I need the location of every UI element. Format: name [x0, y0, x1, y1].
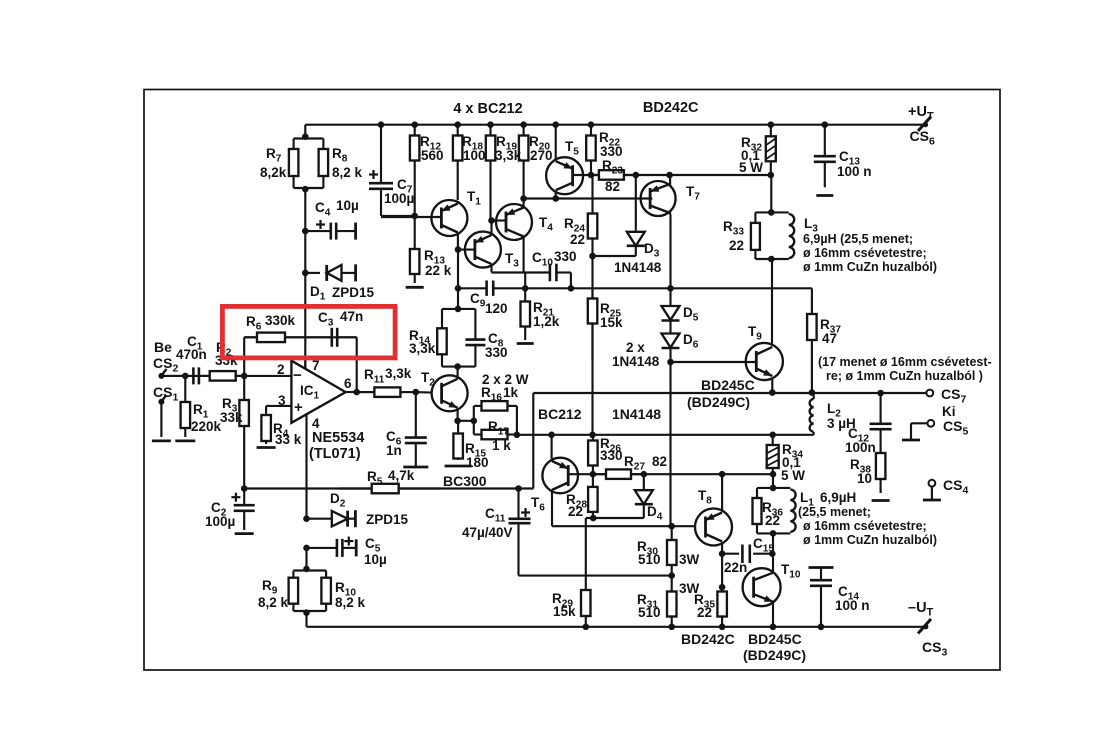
ground bar CS1: [152, 439, 171, 442]
resistor R32: [770, 125, 772, 137]
wire VAS line y288 with corner to R37: [458, 287, 487, 289]
node R7R8 top: [302, 133, 309, 140]
capacitor C7: [380, 125, 382, 184]
svg-text:(BD249C): (BD249C): [687, 394, 750, 410]
wire D1 to opamp pin7: [304, 273, 306, 368]
node T7 emitter y175: [666, 172, 673, 179]
inductor L1: [757, 487, 790, 489]
node T6 collector on rail: [548, 432, 555, 439]
svg-text:22: 22: [765, 513, 780, 528]
node R27 right / D4 top: [641, 471, 648, 478]
svg-text:ø 1mm CuZn huzalból): ø 1mm CuZn huzalból): [803, 260, 937, 274]
node R37 bottom / L2 top: [809, 389, 816, 396]
svg-text:+: +: [294, 399, 303, 416]
node C13 rail: [822, 121, 829, 128]
svg-text:(25,5 menet;: (25,5 menet;: [798, 505, 871, 519]
svg-text:330: 330: [600, 144, 623, 159]
svg-text:330: 330: [600, 448, 623, 463]
resistor R37: [811, 305, 813, 314]
svg-text:4: 4: [312, 416, 320, 431]
node C14 bottom: [818, 624, 825, 631]
capacitor C10: [549, 264, 552, 282]
wire R7R8 parallel block: [294, 137, 324, 139]
svg-text:15k: 15k: [600, 315, 623, 330]
svg-text:5 W: 5 W: [781, 468, 805, 483]
node T3 emitter / T4 base: [488, 217, 495, 224]
svg-text:1N4148: 1N4148: [614, 260, 662, 275]
wire R16/R17 right join: [516, 406, 518, 435]
wire C10 row y272: [492, 271, 550, 273]
svg-text:ZPD15: ZPD15: [366, 512, 409, 527]
transistor T5: [546, 157, 583, 194]
node R34 top on rail: [769, 432, 776, 439]
transistor T3: [465, 232, 501, 268]
svg-text:3: 3: [278, 393, 286, 408]
wire output rail (post-L2) to CS7: [533, 392, 926, 394]
svg-text:100µ: 100µ: [384, 191, 414, 206]
node T7 collector / D5 top on VAS: [667, 285, 674, 292]
termination C6: [403, 466, 428, 469]
resistor R3: [243, 376, 245, 400]
svg-text:560: 560: [421, 148, 444, 163]
svg-text:6,9µH (25,5 menet;: 6,9µH (25,5 menet;: [803, 232, 913, 246]
node R14C8 bottom / T2 collector: [454, 363, 461, 370]
resistor R29: [585, 580, 587, 590]
wire T2 emitter row: [457, 411, 459, 421]
node C10 right on VAS: [568, 285, 575, 292]
svg-text:22n: 22n: [724, 560, 747, 575]
node T5 base / R22: [588, 172, 595, 179]
svg-text:Be: Be: [154, 339, 172, 355]
svg-text:2: 2: [277, 362, 285, 377]
ground bar R4: [257, 446, 276, 449]
wire T1 collector to T3 base: [458, 249, 474, 251]
node R18 top: [454, 121, 461, 128]
svg-text:10: 10: [857, 471, 872, 486]
resistor R14: [441, 309, 443, 328]
resistor R26: [592, 435, 594, 441]
svg-text:3,3k: 3,3k: [385, 366, 412, 381]
svg-text:2 x: 2 x: [626, 340, 645, 355]
svg-text:BD245C: BD245C: [748, 631, 802, 647]
wire R11 to T2 base: [416, 391, 432, 394]
resistor R4: [265, 406, 267, 415]
svg-text:BD242C: BD242C: [681, 631, 735, 647]
terminal CS1: [158, 399, 164, 405]
ground bar R13: [406, 286, 424, 289]
capacitor C13: [824, 125, 826, 157]
svg-text:100: 100: [463, 148, 486, 163]
svg-text:6: 6: [344, 376, 352, 391]
resistor R21: [524, 288, 526, 301]
wire T8em to T10 base: [721, 554, 723, 588]
node R30/R31/C11: [668, 572, 675, 579]
diode D1 ZPD15: [305, 272, 320, 274]
svg-text:1k: 1k: [503, 385, 519, 400]
svg-text:BD242C: BD242C: [643, 100, 699, 116]
wire R9R10 parallel block: [293, 569, 326, 571]
svg-text:4,7k: 4,7k: [388, 468, 415, 483]
node C11 top: [515, 485, 522, 492]
svg-text:ø 16mm csévetestre;: ø 16mm csévetestre;: [803, 246, 927, 260]
svg-text:82: 82: [605, 179, 620, 194]
wire T9 base line: [671, 361, 757, 363]
resistor R11: [357, 391, 375, 393]
node opamp output: [353, 389, 360, 396]
node R12 top: [411, 121, 418, 128]
svg-text:NE5534: NE5534: [312, 430, 364, 446]
resistor R20: [523, 125, 525, 136]
node R29 bottom: [583, 624, 590, 631]
wire pin7 inside triangle: [304, 361, 306, 369]
svg-text:470n: 470n: [176, 347, 207, 362]
capacitor C14: [809, 566, 834, 569]
resistor R7: [293, 139, 295, 150]
resistor R1: [184, 376, 186, 402]
svg-text:33 k: 33 k: [275, 432, 302, 447]
svg-text:220k: 220k: [191, 419, 222, 434]
transistor T2 BC300: [432, 375, 468, 411]
wire R24 bottom to D3 bottom: [593, 255, 636, 257]
termination R38: [872, 499, 890, 502]
svg-text:100 n: 100 n: [835, 598, 870, 613]
svg-text:5 W: 5 W: [739, 160, 763, 175]
resistor R34: [772, 435, 774, 445]
svg-text:330: 330: [485, 345, 508, 360]
svg-text:100 n: 100 n: [837, 164, 872, 179]
svg-text:1 k: 1 k: [492, 438, 511, 453]
capacitor C6: [415, 392, 417, 438]
svg-text:1,2k: 1,2k: [533, 314, 560, 329]
svg-text:120: 120: [485, 301, 508, 316]
wire T4 base: [492, 219, 507, 221]
arrow +UT: [918, 117, 931, 132]
capacitor C12: [880, 393, 882, 424]
node R17 right: [514, 432, 521, 439]
resistor R5: [340, 487, 372, 489]
capacitor C9: [485, 281, 488, 296]
resistor R38: [880, 450, 882, 453]
resistor R33: [770, 175, 772, 212]
transistor T4: [496, 204, 532, 240]
wire amplifier output rail y435: [517, 434, 814, 436]
node C15 right: [769, 550, 776, 557]
svg-text:1N4148: 1N4148: [612, 354, 660, 369]
wire T6 base / R27 row y474: [568, 473, 773, 475]
resistor R15: [457, 421, 459, 434]
svg-text:100n: 100n: [845, 440, 876, 455]
resistor R13: [414, 216, 416, 249]
svg-text:8,2 k: 8,2 k: [258, 595, 289, 610]
wire R23 row y175: [573, 174, 771, 176]
node T5 emitter rail: [552, 121, 559, 128]
svg-text:180: 180: [466, 455, 489, 470]
ground bar C2: [235, 532, 254, 535]
node T10 emitter: [770, 624, 777, 631]
node R30 top / T8 base line: [668, 523, 675, 530]
svg-text:8,2k: 8,2k: [260, 165, 287, 180]
svg-text:3,3k: 3,3k: [409, 341, 436, 356]
svg-text:270: 270: [530, 148, 553, 163]
node R24 bottom: [589, 253, 596, 260]
resistor R10: [325, 571, 327, 578]
node T2 emitter: [454, 418, 461, 425]
resistor R36: [756, 488, 758, 498]
wire T1col column down: [457, 250, 459, 289]
diode D2 ZPD15: [307, 518, 332, 520]
svg-text:ø 16mm csévetestre;: ø 16mm csévetestre;: [803, 519, 927, 533]
resistor R12: [414, 125, 416, 136]
wire input line Be to pin2: [161, 375, 291, 377]
svg-text:8,2 k: 8,2 k: [332, 165, 363, 180]
resistor R30: [671, 526, 673, 540]
node D2: [303, 515, 310, 522]
svg-text:4 x BC212: 4 x BC212: [453, 101, 522, 117]
svg-text:100µ: 100µ: [205, 514, 235, 529]
resistor R35: [721, 587, 723, 591]
diode D3 1N4148: [635, 175, 637, 230]
wire +UT top supply rail: [305, 124, 925, 126]
svg-text:22: 22: [570, 232, 585, 247]
node T6 base / R26 / R28: [590, 471, 597, 478]
node R12 bottom / T1 base: [411, 213, 418, 220]
resistor R8: [322, 139, 324, 150]
node T8 collector on y474: [719, 471, 726, 478]
resistor R17: [474, 433, 482, 435]
svg-text:47µ/40V: 47µ/40V: [462, 525, 513, 540]
termination R21: [517, 342, 534, 345]
node T1 collector / T3 base: [455, 246, 462, 253]
wire R14C8 block: [442, 308, 475, 310]
op-amp IC1 NE5534: [291, 361, 345, 423]
resistor R27: [593, 473, 606, 475]
wire bottom negative rail: [308, 626, 926, 628]
transistor T9 BD245C: [746, 343, 783, 380]
capacitor C2: [243, 489, 245, 506]
svg-text:10µ: 10µ: [364, 552, 387, 567]
transistor T7: [641, 181, 676, 216]
node D1: [302, 270, 309, 277]
wire T5 collector row y198: [524, 197, 653, 199]
svg-text:−: −: [293, 367, 302, 384]
capacitor C4: [305, 230, 331, 232]
svg-text:1n: 1n: [386, 443, 402, 458]
node T5 collector: [552, 195, 559, 202]
svg-text:re; ø 1mm CuZn huzalból ): re; ø 1mm CuZn huzalból ): [826, 369, 983, 383]
node R36L1 bottom: [770, 530, 777, 537]
svg-text:22: 22: [697, 605, 712, 620]
node L3 top: [768, 209, 775, 216]
node R23 right / D3: [633, 172, 640, 179]
svg-text:33k: 33k: [215, 353, 238, 368]
resistor R18: [457, 125, 459, 136]
resistor R9: [292, 571, 294, 578]
node R31 bottom: [668, 624, 675, 631]
wire R25 column: [591, 256, 593, 299]
node T8 emitter / C15: [719, 550, 726, 557]
border frame: [144, 90, 1000, 671]
svg-text:BC300: BC300: [443, 473, 487, 489]
node C12 top: [877, 390, 884, 397]
wire L3 to T9 collector: [771, 259, 773, 345]
capacitor C1: [161, 375, 193, 377]
svg-text:(17 menet ø 16mm csévetest-: (17 menet ø 16mm csévetest-: [818, 355, 992, 369]
terminal CS5: [927, 420, 934, 427]
terminal CS7: [926, 390, 933, 397]
terminal CS4: [929, 480, 936, 487]
wire C7 to T1 base: [381, 216, 440, 218]
wire output to R11: [346, 391, 375, 393]
node R3 bottom / C2: [241, 485, 248, 492]
svg-text:6,9µH: 6,9µH: [820, 490, 856, 505]
svg-text:(TL071): (TL071): [309, 446, 361, 462]
termination R15: [445, 465, 472, 468]
node R19 top: [487, 121, 494, 128]
red highlight box: [222, 306, 395, 358]
node inverting input: [241, 373, 248, 380]
svg-text:(BD249C): (BD249C): [743, 647, 806, 663]
diode D4: [643, 474, 645, 489]
svg-text:BD245C: BD245C: [701, 377, 755, 393]
wire R28/D4 bottom row to R29: [586, 517, 644, 519]
svg-text:22: 22: [729, 238, 744, 253]
node R20 top: [520, 121, 527, 128]
node R9R10 top: [303, 566, 310, 573]
node R16R17 left: [471, 418, 478, 425]
node C5: [303, 545, 310, 552]
transistor T6: [542, 458, 578, 494]
input terminal Be/CS2: [158, 373, 164, 379]
node T9 emitter on rail: [769, 389, 776, 396]
node R9R10 bottom: [303, 609, 310, 616]
resistor R25: [591, 288, 593, 298]
diode D6: [662, 334, 680, 348]
svg-text:10µ: 10µ: [336, 198, 359, 213]
wire feedback/BC300 line R5 row: [244, 487, 533, 489]
wire C4/D1 column: [304, 231, 306, 273]
svg-text:510: 510: [638, 605, 661, 620]
node R14C8 top: [455, 306, 462, 313]
ground bar R1: [175, 439, 195, 442]
wire T3/T4 collector column to R21: [524, 273, 526, 289]
capacitor C5: [307, 547, 337, 549]
wire T7 collector / diode column x670: [669, 215, 671, 307]
wire L1 bottom to T10 collector: [772, 533, 774, 569]
inductor L2: [813, 393, 815, 399]
svg-text:1N4148: 1N4148: [612, 406, 661, 422]
svg-text:22: 22: [568, 504, 583, 519]
svg-text:330k: 330k: [265, 313, 296, 328]
node R7R8 bottom: [302, 186, 309, 193]
node input / R1: [182, 373, 189, 380]
transistor T10 BD245C: [743, 568, 781, 606]
resistor R28: [592, 474, 594, 487]
capacitor C3: [312, 336, 332, 338]
node R28 bottom: [590, 515, 597, 522]
resistor R19: [489, 125, 491, 136]
svg-text:82: 82: [652, 454, 667, 469]
node R34 bottom / R36L1 top: [770, 471, 777, 478]
svg-text:3W: 3W: [679, 552, 700, 567]
node R36L1 top: [770, 485, 777, 492]
capacitor C11 47u: [509, 517, 531, 520]
node C4: [302, 228, 309, 235]
svg-text:Ki: Ki: [942, 404, 956, 419]
capacitor C15: [722, 553, 739, 555]
node R32 top rail: [768, 121, 775, 128]
resistor R23: [591, 174, 599, 176]
resistor R16: [474, 405, 482, 407]
svg-text:330: 330: [554, 249, 577, 264]
arrow -UT: [918, 619, 931, 634]
resistor R31: [671, 576, 673, 592]
wire feedback R6-C3 row: [243, 337, 245, 376]
transistor T1: [431, 200, 467, 236]
svg-text:BC212: BC212: [538, 406, 582, 422]
resistor R22: [590, 125, 592, 136]
node R25/R26 on rail: [589, 432, 596, 439]
svg-text:47: 47: [822, 331, 837, 346]
inductor L3: [755, 211, 788, 213]
svg-text:8,2 k: 8,2 k: [335, 595, 366, 610]
svg-text:33k: 33k: [220, 410, 243, 425]
wire C11 to R30/R31 junction row: [517, 489, 519, 519]
resistor R24: [591, 175, 593, 214]
wire T6 collector: [551, 435, 553, 459]
node T10 base: [719, 584, 726, 591]
svg-text:15k: 15k: [553, 604, 576, 619]
node R22 top: [588, 121, 595, 128]
node R11 right / C6: [413, 389, 420, 396]
svg-text:3,3k: 3,3k: [495, 148, 522, 163]
svg-text:22 k: 22 k: [425, 263, 452, 278]
diode D5: [662, 306, 680, 320]
svg-text:47n: 47n: [340, 309, 363, 324]
resistor R6: [244, 336, 257, 338]
node T4/T5/R20 y198: [520, 195, 527, 202]
wire pin3: [266, 405, 291, 407]
resistor R2: [209, 375, 211, 377]
transistor T8 BD242C: [695, 509, 732, 546]
node L3 bottom: [768, 256, 775, 263]
svg-text:ZPD15: ZPD15: [332, 285, 375, 300]
node D6 bottom / T9 base: [667, 359, 674, 366]
node R21 top on VAS: [522, 285, 529, 292]
wire pin4 below triangle: [305, 415, 307, 519]
node R32 bottom: [768, 172, 775, 179]
svg-text:ø 1mm CuZn huzalból): ø 1mm CuZn huzalból): [803, 533, 937, 547]
node R35 bottom: [719, 624, 726, 631]
svg-text:510: 510: [638, 552, 661, 567]
capacitor C8: [474, 309, 476, 340]
node C7 top rail: [378, 121, 385, 128]
wire T6 emitter row y526: [551, 492, 553, 527]
node VAS left end: [455, 285, 462, 292]
